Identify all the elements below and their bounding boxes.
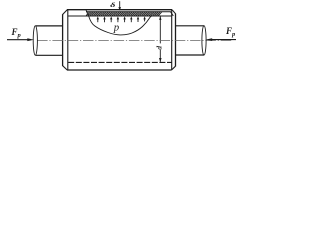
hub right face xyxy=(175,14,177,67)
left force line xyxy=(7,39,29,41)
pressure band shading xyxy=(86,12,160,16)
right shaft end ellipse xyxy=(202,26,206,55)
centerline xyxy=(37,39,232,41)
svg-text:d: d xyxy=(154,46,163,50)
pressure arrow 3 xyxy=(110,16,112,22)
pressure arrow 7 xyxy=(137,16,139,22)
hub outer bottom edge xyxy=(67,69,172,71)
svg-text:δ: δ xyxy=(110,2,116,9)
pressure arrow 8 xyxy=(143,16,145,21)
hub chamfer top-right xyxy=(172,10,176,14)
hub chamfer bottom-left xyxy=(63,66,68,70)
right force arrowhead xyxy=(206,38,213,41)
label F_p left xyxy=(12,27,21,39)
hub chamfer top-left xyxy=(63,10,68,15)
svg-text:p: p xyxy=(113,22,119,33)
pressure arrow 4 xyxy=(117,16,119,22)
hub chamfer bottom-right xyxy=(172,66,176,70)
pressure band top line xyxy=(86,12,173,16)
left shaft top line xyxy=(36,25,63,27)
pressure arrow 2 xyxy=(103,16,105,22)
pressure arrow 1 xyxy=(97,16,99,22)
right shaft top line xyxy=(176,25,205,27)
broken-out section wavy line xyxy=(86,10,152,35)
fit contact line top xyxy=(68,15,172,17)
interference leader arrow xyxy=(118,1,121,11)
pressure arrow 6 xyxy=(130,16,132,22)
hub left face xyxy=(62,14,64,66)
pressure arrow 5 xyxy=(123,16,125,22)
dimension d line xyxy=(159,16,161,62)
dimension d top arrowhead xyxy=(159,16,161,20)
hub chamfer edge line left xyxy=(67,10,69,70)
hub chamfer edge line right xyxy=(171,10,173,70)
left shaft bottom line xyxy=(36,54,63,56)
label F_p right xyxy=(226,26,235,38)
right shaft bottom line xyxy=(176,54,205,56)
dimension d bottom arrowhead xyxy=(159,58,162,62)
right force line xyxy=(212,39,237,41)
left shaft end ellipse xyxy=(33,26,37,55)
hub outer top edge xyxy=(67,9,172,11)
fit line bottom hidden dashed xyxy=(68,61,171,63)
pressure band hatch xyxy=(86,12,162,16)
left force arrowhead xyxy=(27,38,34,41)
